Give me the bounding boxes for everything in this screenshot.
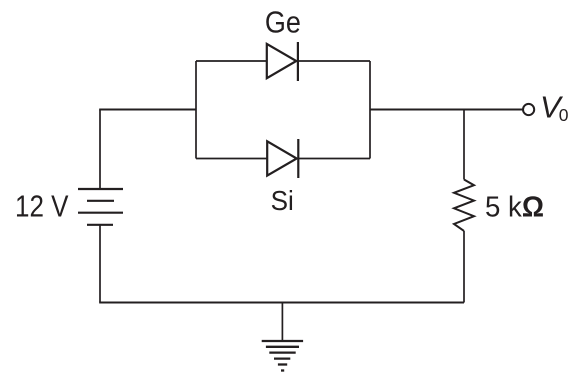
resistor R1 5 kOhm [454,180,474,231]
node V0 output terminal circle [523,104,534,115]
wire: resistor branch top [463,110,465,180]
wire: box bottom-left segment [196,158,268,160]
wire: box bottom-right segment [298,158,370,160]
diode D2 Si (bottom) [267,139,298,178]
svg-text:Ge: Ge [265,5,301,40]
svg-text:5 kΩ: 5 kΩ [485,191,544,223]
wire: box top-left segment [196,60,267,62]
wire: box to output terminal [370,108,523,110]
wire: battery bottom vertical [99,225,101,303]
wire: box top-right segment [298,60,370,62]
wire: battery to diode box horizontal [99,108,196,110]
wire: resistor bottom [463,231,465,303]
battery V1 12 V [78,189,123,225]
svg-text:12 V: 12 V [15,189,69,224]
diode D1 Ge (top) [267,42,298,81]
ground [262,341,303,371]
node: diode box right edge [369,61,371,159]
node: diode box left edge [195,61,197,159]
wire: battery top vertical [99,110,101,190]
svg-text:Si: Si [271,185,294,216]
wire: ground stub [281,303,283,342]
svg-text:0: 0 [559,105,569,125]
wire: bottom horizontal rail [99,302,464,304]
